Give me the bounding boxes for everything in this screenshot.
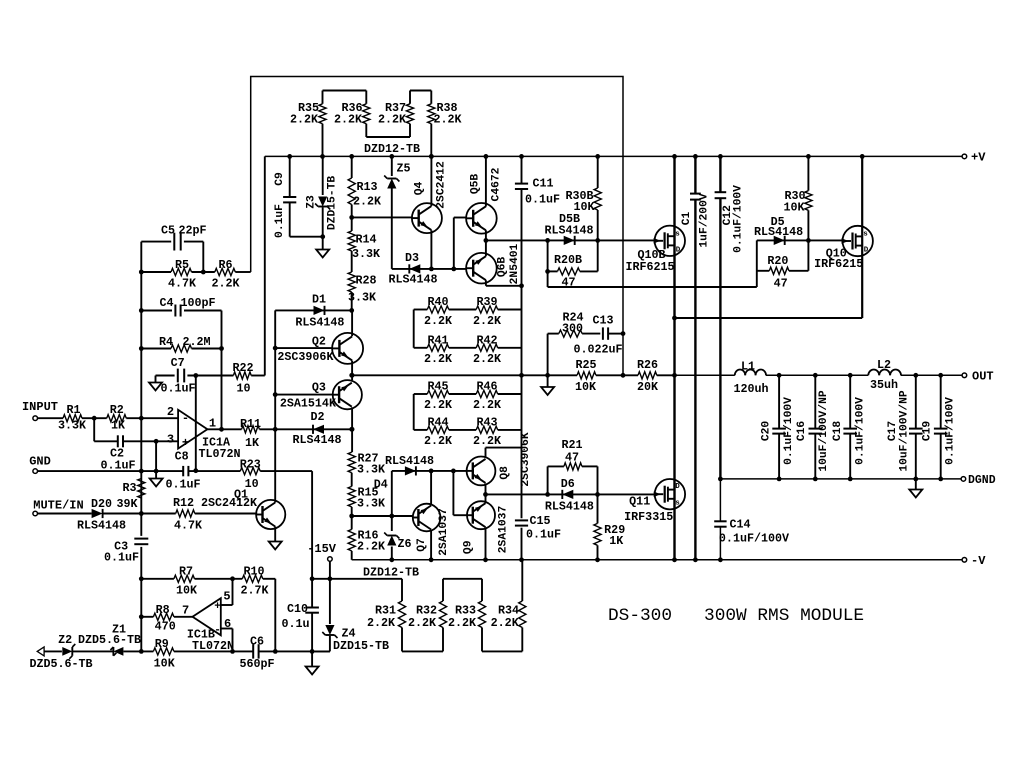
svg-text:10K: 10K [575, 380, 597, 394]
resistor R16 [348, 529, 386, 560]
junction C20 top [777, 373, 782, 378]
junction R21/R29 [595, 492, 600, 497]
svg-text:D3: D3 [405, 251, 419, 265]
svg-text:Q2: Q2 [312, 334, 326, 348]
svg-text:22pF: 22pF [178, 224, 206, 238]
svg-text:10uF/100V/NP: 10uF/100V/NP [818, 390, 830, 472]
svg-text:R42: R42 [476, 334, 497, 348]
junction Q8Q9/D6 line [483, 492, 488, 497]
wire Q4 collector [430, 156, 432, 206]
svg-text:R9: R9 [155, 637, 169, 651]
svg-text:R14: R14 [355, 233, 376, 247]
junction R13/R14/base [349, 215, 354, 220]
svg-text:2.2K: 2.2K [448, 616, 477, 630]
svg-text:2.2K: 2.2K [334, 113, 363, 127]
svg-text:C18: C18 [832, 421, 844, 442]
junction mid rail/feedback [621, 373, 626, 378]
junction Q10/+V [860, 154, 865, 159]
junction Z6 top [389, 514, 394, 519]
svg-text:2SC3906K: 2SC3906K [277, 350, 334, 364]
junction C10/bottom row [310, 649, 315, 654]
junction R4 left [139, 346, 144, 351]
wire Z6 vertical [391, 471, 393, 531]
svg-text:Z5: Z5 [396, 162, 410, 176]
wire Q9 collector [485, 494, 487, 503]
svg-text:3.3K: 3.3K [348, 291, 377, 305]
svg-text:R10: R10 [243, 565, 264, 579]
svg-text:120uh: 120uh [733, 382, 768, 396]
resistor R4 [141, 335, 221, 352]
junction C2/pin3 gnd [154, 439, 159, 444]
svg-text:C19: C19 [922, 421, 934, 442]
capacitor C20 [760, 375, 795, 479]
junction R8 left [139, 614, 144, 619]
wire D3 line [392, 268, 466, 270]
svg-text:1K: 1K [245, 436, 260, 450]
wire Q7 emitter [430, 530, 432, 560]
svg-text:RLS4148: RLS4148 [77, 519, 126, 533]
junction D5/R30 [806, 238, 811, 243]
svg-text:2SC2412: 2SC2412 [436, 161, 448, 209]
svg-text:1K: 1K [111, 419, 126, 433]
ground mid rail [541, 375, 554, 395]
resistor R9 [153, 637, 175, 671]
junction Q5B base drop [451, 267, 456, 272]
resistor R46 [473, 380, 522, 413]
resistor R40 [414, 295, 477, 328]
svg-text:L2: L2 [877, 358, 891, 372]
junction C20 bottom [777, 477, 782, 482]
label DZD12-TB (Z6) [363, 566, 419, 580]
wire C9-Z3 bottom [290, 236, 323, 238]
resistor R39 [473, 295, 522, 328]
junction R1/R2 [92, 416, 97, 421]
wire C2 branch [94, 418, 178, 441]
junction Q7 emitter/-V [429, 557, 434, 562]
resistor R27 [348, 452, 386, 477]
svg-text:100pF: 100pF [180, 296, 215, 310]
junction DGND-C14 [718, 477, 723, 482]
wire Q5B emitter to D5B line [486, 230, 655, 240]
junction mid rail/R24 gnd [545, 373, 550, 378]
resistor R20B [548, 240, 598, 289]
junction R11/D2/Q1 [273, 427, 278, 432]
resistor R20 [757, 240, 809, 290]
svg-text:D: D [864, 247, 869, 255]
wire +V left drop to R22 [264, 156, 266, 375]
wire IC1B pin6 [221, 629, 233, 652]
junction R5 left [139, 270, 144, 275]
wire Q9 emitter [485, 527, 487, 560]
label INPUT [22, 400, 58, 414]
transistor Q6B [466, 243, 521, 284]
resistor R31 [367, 579, 406, 652]
transistor Q5B [466, 167, 503, 233]
junction D5B/R30B [595, 238, 600, 243]
wire Q5B collector [485, 156, 487, 206]
junction GND/pin3 drop [154, 469, 159, 474]
junction mute/R3C3 [139, 511, 144, 516]
junction C19 bottom [938, 477, 943, 482]
svg-text:Q8: Q8 [499, 466, 511, 480]
wire Q4 emitter [430, 230, 432, 269]
svg-text:D: D [676, 247, 681, 255]
svg-text:DZD5.6-TB: DZD5.6-TB [29, 657, 92, 671]
svg-text:L1: L1 [741, 360, 755, 374]
svg-text:OUT: OUT [972, 370, 994, 384]
junction Z3 bottom [320, 234, 325, 239]
svg-text:R44: R44 [427, 416, 448, 430]
resistor R30 [783, 156, 812, 240]
svg-text:2.2K: 2.2K [211, 277, 240, 291]
wire input [38, 417, 179, 419]
wire IC1B output [174, 616, 193, 618]
capacitor C13 [573, 314, 623, 357]
wire Q9 base bracket [453, 471, 467, 515]
junction R13/+V [349, 154, 354, 159]
junction Q8 base/Q9 bracket [451, 469, 456, 474]
svg-text:Z3: Z3 [306, 195, 318, 209]
wire IC1A output [207, 428, 241, 430]
wire mid rail [352, 374, 675, 376]
resistor R15 [348, 473, 386, 511]
junction C7/R22 node [193, 373, 198, 378]
svg-text:D20: D20 [91, 497, 112, 511]
svg-text:R3: R3 [122, 481, 136, 495]
terminal INPUT [33, 416, 38, 421]
capacitor C14 [714, 479, 789, 560]
svg-text:560pF: 560pF [239, 657, 274, 671]
svg-text:5: 5 [223, 590, 230, 604]
svg-text:0.1uF: 0.1uF [104, 551, 139, 565]
resistor R11 [240, 417, 275, 450]
svg-text:RLS4148: RLS4148 [388, 273, 437, 287]
wire Q3 base [275, 394, 333, 396]
svg-text:Q3: Q3 [312, 381, 326, 395]
capacitor C17 [887, 375, 923, 479]
junction C18 bottom [848, 477, 853, 482]
junction mid rail/Q2Q3 [349, 373, 354, 378]
junction C13/feedback [621, 331, 626, 336]
wire Q1 collector [274, 429, 276, 502]
resistor R14 [348, 217, 381, 272]
svg-text:3: 3 [167, 433, 174, 447]
wire R31-R32 bottom [402, 650, 443, 652]
svg-text:2.2K: 2.2K [378, 113, 407, 127]
terminal arrow DZD5.6 [37, 647, 44, 656]
svg-text:2SA1514K: 2SA1514K [280, 396, 337, 410]
svg-text:R20: R20 [767, 254, 788, 268]
svg-text:DZD12-TB: DZD12-TB [363, 566, 419, 580]
zener Z4 [312, 625, 389, 653]
op-amp IC1B [182, 590, 234, 654]
wire GND rail [38, 470, 313, 472]
junction drain line left [672, 316, 677, 321]
resistor R26 [637, 358, 659, 394]
wire -15V row [312, 578, 482, 580]
svg-text:D4: D4 [374, 478, 388, 492]
svg-text:R12: R12 [173, 496, 194, 510]
junction Q4 emitter/D3 [429, 267, 434, 272]
svg-text:D2: D2 [310, 410, 324, 424]
svg-text:R25: R25 [575, 358, 596, 372]
resistor R2 [107, 403, 127, 433]
wire D2 line [275, 428, 352, 430]
wire D5 line [757, 239, 843, 241]
wire bottom row [44, 650, 330, 652]
svg-text:R46: R46 [476, 380, 497, 394]
junction Q2Q3 emitters/mid rail [350, 373, 355, 378]
svg-text:R4: R4 [159, 335, 173, 349]
junction Z5/+V [389, 154, 394, 159]
label DZD5.6-TB [29, 657, 92, 671]
ground C7 [149, 376, 162, 391]
svg-text:RLS4148: RLS4148 [295, 316, 344, 330]
resistor R38 [428, 91, 463, 157]
diode D1 [295, 293, 344, 330]
junction pin6/R9 [230, 649, 235, 654]
svg-text:Q1: Q1 [234, 488, 248, 502]
terminal DGND [961, 474, 996, 487]
svg-text:s: s [675, 231, 680, 239]
label -15V [307, 542, 337, 556]
wire R24 branch [547, 334, 549, 376]
junction -15V/R31 line [328, 576, 333, 581]
svg-text:2.2K: 2.2K [473, 314, 502, 328]
inductor L2 [868, 358, 901, 392]
svg-text:IRF3315: IRF3315 [624, 510, 673, 524]
wire -V rail [352, 559, 963, 561]
svg-text:2SC3906K: 2SC3906K [520, 432, 532, 486]
zener Z5 [384, 156, 410, 269]
resistor R43 [473, 416, 522, 449]
svg-text:D: D [675, 483, 680, 491]
ground below Z3 [316, 237, 329, 258]
junction R10/bottom row [273, 649, 278, 654]
transistor Q7 [413, 504, 450, 556]
svg-text:-: - [182, 412, 189, 426]
svg-text:MUTE/IN: MUTE/IN [33, 499, 83, 513]
junction Q3/D2 [350, 427, 355, 432]
wire VAS base vertical [274, 310, 276, 429]
junction Q2 base [273, 346, 278, 351]
label title [608, 606, 864, 626]
wire IC1B pin5 [221, 579, 233, 605]
junction Q5B collector/+V [484, 154, 489, 159]
junction C19 top [938, 373, 943, 378]
junction Q7/D4 [429, 469, 434, 474]
transistor Q2 [277, 333, 363, 364]
junction feedback/pin2 [139, 416, 144, 421]
svg-text:RLS4148: RLS4148 [544, 224, 593, 238]
junction Q3 base [273, 392, 278, 397]
wire pin3 ground drop [150, 441, 163, 486]
resistor R8 [141, 603, 175, 634]
svg-text:2.2K: 2.2K [290, 113, 319, 127]
svg-text:R43: R43 [476, 416, 497, 430]
junction D5B/R20B left [545, 238, 550, 243]
mosfet Q10 [814, 226, 873, 271]
svg-text:3.3K: 3.3K [58, 419, 87, 433]
svg-text:-: - [214, 625, 221, 637]
junction GND/feedback vertical [139, 469, 144, 474]
svg-text:2.2K: 2.2K [424, 434, 453, 448]
wire Q2 collector [351, 310, 353, 336]
resistor R33 [448, 579, 486, 652]
junction D6/R21 left [545, 492, 550, 497]
junction C18 top [848, 373, 853, 378]
zener Z3 [306, 156, 339, 236]
diode D5B [544, 212, 593, 245]
junction R30/+V [806, 154, 811, 159]
svg-text:Q9: Q9 [462, 540, 474, 554]
svg-text:C13: C13 [592, 314, 613, 328]
svg-text:C14: C14 [729, 517, 750, 531]
svg-text:0.1uF: 0.1uF [165, 478, 200, 492]
wire mute [38, 513, 258, 515]
terminal -15V [328, 557, 333, 562]
resistor R25 [575, 358, 597, 394]
svg-text:+V: +V [971, 151, 986, 165]
ground at DGND [909, 479, 922, 498]
transistor Q1 [256, 500, 285, 529]
junction R5/C5 [201, 270, 206, 275]
svg-text:R20B: R20B [554, 253, 582, 267]
capacitor C19 [922, 375, 957, 479]
resistor R34 [491, 560, 526, 652]
zener Z1 [78, 623, 141, 656]
svg-text:R26: R26 [637, 358, 658, 372]
resistor R12 [173, 488, 258, 533]
resistor R1 [58, 403, 87, 433]
svg-text:2.2K: 2.2K [424, 398, 453, 412]
svg-text:C16: C16 [796, 421, 808, 442]
inductor L1 [733, 360, 768, 397]
wire R33-R34 bottom [482, 650, 522, 652]
wire feedback vertical C4R4 [221, 311, 223, 430]
wire Q7 collector [430, 471, 432, 505]
resistor R23 [240, 458, 261, 492]
junction Q6B emitter/C11 [519, 283, 524, 288]
resistor R28 [348, 272, 377, 310]
wire R35-R36 top bracket [323, 90, 367, 92]
svg-text:0.1uF: 0.1uF [160, 382, 195, 396]
junction C11/+V [519, 154, 524, 159]
svg-text:0.1uF: 0.1uF [274, 204, 286, 238]
svg-text:0.1uF: 0.1uF [526, 528, 561, 542]
svg-text:IRF6215: IRF6215 [814, 257, 863, 271]
junction C16 top [813, 373, 818, 378]
diode D4 [374, 454, 434, 492]
junction C16 bottom [813, 477, 818, 482]
svg-text:IRF6215: IRF6215 [625, 260, 674, 274]
terminal -V [962, 554, 986, 568]
svg-text:DZD15-TB: DZD15-TB [326, 176, 338, 230]
resistor R24 [548, 311, 601, 338]
wire R7 row [141, 578, 275, 580]
junction R38/+V [429, 154, 434, 159]
svg-text:DZD5.6-TB: DZD5.6-TB [78, 633, 141, 647]
svg-text:0.1u: 0.1u [281, 617, 309, 631]
label MUTE/IN [33, 499, 83, 513]
svg-text:R7: R7 [179, 565, 193, 579]
svg-text:10K: 10K [176, 584, 198, 598]
junction C14/-V [718, 557, 723, 562]
svg-text:R39: R39 [476, 295, 497, 309]
svg-text:20K: 20K [637, 380, 659, 394]
wire R23 drop [311, 471, 313, 579]
capacitor C4 [141, 296, 221, 317]
wire R45-R44 left bracket [413, 394, 415, 430]
resistor R32 [408, 579, 447, 652]
capacitor C16 [796, 375, 830, 479]
capacitor C3 [104, 539, 148, 565]
svg-text:2SA1037: 2SA1037 [497, 506, 509, 554]
wire +V rail [265, 155, 962, 157]
svg-text:D1: D1 [312, 293, 326, 307]
svg-text:10: 10 [236, 382, 250, 396]
junction R35/+V [320, 154, 325, 159]
capacitor C15 [515, 514, 561, 560]
svg-text:s: s [863, 231, 868, 239]
op-amp IC1A [167, 405, 241, 461]
junction C17 top [913, 373, 918, 378]
wire R10 drop [274, 579, 276, 652]
resistor R6 [211, 258, 250, 291]
junction Z6/-V [389, 557, 394, 562]
svg-text:10K: 10K [783, 201, 805, 215]
wire D4 line [392, 470, 467, 472]
resistor R22 [232, 361, 264, 396]
svg-text:7: 7 [182, 604, 189, 618]
resistor R42 [473, 334, 522, 367]
svg-text:2.2K: 2.2K [491, 616, 520, 630]
wire D6 line [486, 493, 655, 495]
wire Q2 emitter [351, 361, 353, 381]
transistor Q9 [462, 501, 509, 554]
junction D2/Q2Q3 chain [349, 427, 354, 432]
svg-text:+: + [182, 436, 189, 450]
svg-text:47: 47 [565, 451, 579, 465]
svg-text:C6: C6 [250, 635, 264, 649]
svg-text:300: 300 [562, 322, 583, 336]
svg-text:2.7K: 2.7K [240, 584, 269, 598]
svg-text:RLS4148: RLS4148 [385, 454, 434, 468]
svg-text:Q4: Q4 [414, 182, 426, 196]
junction R4 right [219, 346, 224, 351]
junction mid rail/C11 chain [519, 373, 524, 378]
resistor R45 [414, 380, 477, 413]
wire OUT rail [657, 374, 962, 376]
junction mid rail/output [672, 373, 677, 378]
svg-text:2.2K: 2.2K [357, 540, 386, 554]
wire Q6B collector [485, 240, 487, 256]
junction channel/+V [672, 154, 677, 159]
svg-text:Z2: Z2 [58, 633, 72, 647]
wire Q5B base drop [454, 218, 466, 269]
svg-text:DZD12-TB: DZD12-TB [364, 142, 420, 156]
junction C1/+V [693, 154, 698, 159]
transistor Q3 [280, 380, 362, 410]
capacitor C9 [274, 156, 296, 238]
resistor R5 [141, 258, 215, 291]
svg-text:2.2K: 2.2K [473, 398, 502, 412]
wire Q3 collector [351, 407, 353, 452]
capacitor C5 [141, 224, 206, 273]
label DZD12-TB (Z5) [364, 142, 420, 156]
wire top feedback [251, 77, 623, 376]
junction C12/+V [718, 154, 723, 159]
